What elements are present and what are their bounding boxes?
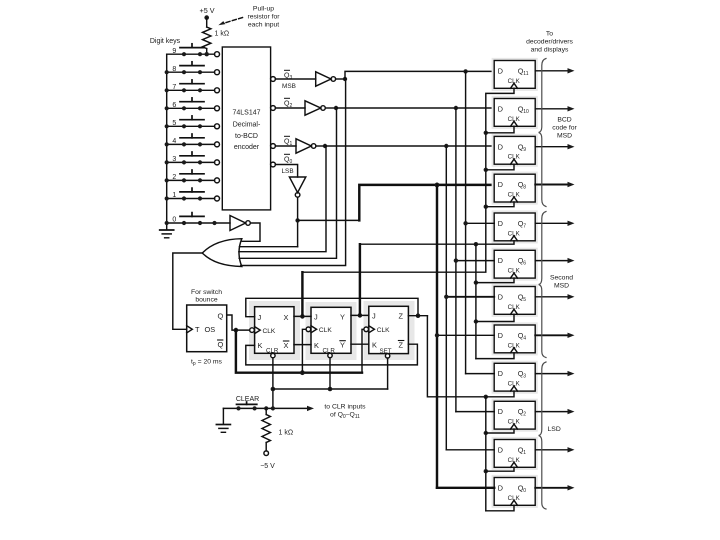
wire 2nd-MSD data tap bit3 to Q7 D — [466, 222, 495, 224]
wire Q2 to inverter G2 — [275, 107, 305, 109]
D flip-flop Q5 — [492, 284, 575, 317]
label Q3 MSB — [282, 73, 296, 91]
D flip-flop Q11 — [492, 58, 575, 91]
wire bit3 down to OR gate — [241, 79, 346, 266]
key 6 — [165, 98, 215, 111]
key 3 — [165, 152, 215, 164]
label For switch bounce — [191, 289, 222, 304]
D flip-flop Q3 — [492, 361, 575, 394]
wire MSD clock net (from X) — [302, 88, 514, 272]
svg-text:CLEAR: CLEAR — [236, 396, 259, 403]
wire X up to MSD clock rail (bold) — [301, 272, 303, 316]
ground (CLEAR) — [222, 408, 224, 424]
svg-text:X: X — [284, 341, 289, 350]
wire Z output — [408, 315, 427, 317]
label CLEAR — [236, 396, 259, 403]
svg-text:Digit keys: Digit keys — [150, 38, 181, 45]
key 9 — [167, 44, 215, 57]
D flip-flop Q10 — [492, 96, 575, 129]
svg-text:code for: code for — [552, 125, 577, 132]
D flip-flop Q8 — [492, 172, 575, 205]
svg-text:2: 2 — [172, 174, 176, 181]
svg-text:D: D — [498, 407, 503, 416]
svg-text:J: J — [314, 313, 318, 322]
node Z output junction — [416, 313, 421, 318]
wire Xbar to Y K — [294, 344, 311, 346]
svg-text:and displays: and displays — [531, 47, 569, 54]
wire LSD clock net (from Z) — [427, 316, 485, 397]
svg-text:Z: Z — [399, 312, 404, 321]
svg-text:D: D — [498, 66, 503, 75]
wire bit0 jog to Q8 D — [298, 219, 360, 221]
svg-text:MSD: MSD — [554, 283, 569, 290]
svg-text:bounce: bounce — [195, 297, 218, 304]
svg-text:1 kΩ: 1 kΩ — [215, 31, 230, 38]
wire clock tap to Y — [302, 329, 306, 372]
svg-text:5: 5 — [172, 120, 176, 127]
key 2 — [165, 170, 215, 182]
svg-text:LSB: LSB — [282, 168, 294, 175]
svg-text:resistor for: resistor for — [247, 13, 280, 20]
svg-text:D: D — [498, 483, 503, 492]
wire bit0 vertical — [436, 185, 438, 488]
svg-text:Z: Z — [399, 340, 404, 349]
svg-text:Q0: Q0 — [284, 157, 292, 166]
wire bit0 down to node A0 — [297, 197, 299, 247]
svg-text:X: X — [284, 313, 289, 322]
wire G3 output to bus (node A3) — [336, 78, 345, 80]
svg-text:To: To — [546, 31, 553, 38]
svg-text:1 kΩ: 1 kΩ — [279, 430, 294, 437]
wire 2nd-MSD data tap bit1 to Q5 D — [446, 296, 494, 298]
svg-text:D: D — [498, 180, 503, 189]
encoder output bubble Q1 — [271, 144, 276, 149]
resistor R2 1 kohm — [265, 408, 267, 414]
svg-text:OS: OS — [205, 325, 216, 334]
wire LSD data tap bit1 to Q1 D — [446, 449, 494, 451]
keypad rows 9..1 — [165, 44, 230, 225]
label LSD — [548, 426, 561, 433]
label Q1 — [284, 139, 292, 148]
brace MSD group — [539, 59, 546, 207]
wire Zbar feedback to X K — [246, 344, 418, 365]
flip-flop X (J-K) — [255, 307, 294, 354]
flip-flop Z (J-K) — [369, 306, 409, 353]
wire Y up to 2nd-MSD clock rail (bold) — [359, 244, 361, 315]
wire OS Q to clocks — [227, 315, 250, 330]
OR gate G5 — [202, 239, 242, 267]
svg-text:K: K — [372, 340, 377, 349]
svg-text:D: D — [498, 369, 503, 378]
label BCD code for MSD — [552, 117, 577, 140]
key 4 — [165, 134, 215, 146]
wire CLR rail — [272, 358, 274, 409]
wire clock tap to Z — [362, 329, 364, 372]
svg-text:Q: Q — [218, 311, 224, 320]
encoder output bubble Q2 — [271, 106, 276, 111]
one-shot U2 OS box — [187, 305, 227, 352]
D flip-flop Q9 — [492, 134, 575, 167]
wire Q1 to inverter G1 — [275, 145, 296, 147]
label tp = 20 ms — [191, 359, 223, 367]
label to CLR inputs of Q0-Q11 — [324, 404, 366, 420]
wire bit2 vertical — [455, 108, 457, 412]
wire top feedback rail (Z to J of X) — [246, 298, 418, 316]
svg-text:K: K — [258, 341, 263, 350]
svg-text:0: 0 — [172, 217, 176, 224]
brace LSD group — [539, 362, 546, 509]
svg-text:MSB: MSB — [282, 83, 296, 90]
brace 2nd MSD group — [539, 212, 546, 358]
wire clock rail (bold) — [236, 330, 362, 373]
svg-text:D: D — [498, 445, 503, 454]
label Digit keys — [150, 38, 181, 45]
svg-text:tp = 20 ms: tp = 20 ms — [191, 359, 223, 367]
label Q2 — [284, 101, 292, 110]
D flip-flop Q0 — [492, 475, 575, 508]
inverter G4 (downward) — [289, 177, 305, 193]
svg-text:Pull-up: Pull-up — [253, 6, 274, 13]
wire bit3 vertical — [465, 71, 467, 373]
svg-text:74LS147: 74LS147 — [232, 110, 260, 117]
wire 2nd-MSD data tap bit2 to Q6 D — [456, 260, 494, 262]
wire bit2 down to OR gate — [239, 108, 336, 258]
wire CLEAR line — [223, 407, 309, 409]
svg-text:D: D — [498, 104, 503, 113]
supply +5 V label — [200, 6, 215, 15]
wire resistor R1 to row 9 — [206, 49, 208, 55]
svg-text:D: D — [498, 142, 503, 151]
svg-text:8: 8 — [172, 66, 176, 73]
wire X output to Y J — [294, 315, 311, 317]
svg-text:Y: Y — [340, 341, 345, 350]
svg-text:1: 1 — [172, 192, 176, 199]
encoder output bubble Q3 — [271, 77, 276, 82]
resistor R1 1 kohm pull-up — [203, 27, 211, 49]
ground (keypad bus) — [160, 229, 174, 231]
node +5V terminal dot — [204, 15, 209, 20]
svg-text:LSD: LSD — [548, 426, 561, 433]
inverter G2 — [305, 101, 321, 115]
svg-text:J: J — [372, 312, 376, 321]
wire 2nd-MSD data tap bit0 to Q4 D — [437, 334, 494, 336]
wire bit1 down to OR gate — [239, 146, 326, 252]
svg-text:J: J — [258, 313, 262, 322]
svg-text:CLK: CLK — [319, 327, 332, 334]
wire left key bus — [166, 54, 168, 229]
svg-text:Q: Q — [218, 340, 224, 349]
inverter G3 — [316, 72, 331, 86]
wire bit0 to OR gate — [240, 246, 298, 248]
wire Q0 to inverter G4 — [275, 165, 297, 178]
svg-text:to CLR inputs: to CLR inputs — [324, 404, 366, 411]
encoder U1 74LS147 input bubbles — [215, 52, 220, 201]
wire bit1 vertical — [445, 146, 447, 450]
key 5 — [165, 116, 215, 129]
inverter G0 (key 0) — [230, 216, 246, 231]
svg-text:−5 V: −5 V — [260, 463, 275, 470]
wire G1 output to bus (node A1) — [316, 145, 325, 147]
D flip-flop Q7 — [492, 210, 575, 243]
flip-flop Y (J-K) — [311, 307, 351, 353]
svg-text:MSD: MSD — [557, 133, 572, 140]
svg-text:D: D — [498, 331, 503, 340]
svg-text:4: 4 — [172, 138, 176, 145]
label 1 kohm for R1 — [215, 31, 230, 38]
svg-text:3: 3 — [172, 156, 176, 163]
D flip-flop Q4 — [492, 322, 575, 355]
svg-text:Second: Second — [550, 275, 573, 282]
svg-text:T: T — [195, 325, 200, 334]
svg-text:encoder: encoder — [234, 144, 260, 151]
key 8 — [165, 62, 215, 74]
encoder output bubble Q0 — [271, 162, 276, 167]
wire Y output to Z J — [351, 314, 369, 316]
D flip-flop Q6 — [492, 248, 575, 281]
svg-text:D: D — [498, 292, 503, 301]
svg-text:+5 V: +5 V — [200, 6, 215, 15]
wire 2nd-MSD clock net (from Y) — [360, 241, 514, 244]
svg-text:BCD: BCD — [557, 117, 571, 124]
label Pull-up resistor for each input — [247, 6, 280, 29]
D flip-flop Q2 — [492, 399, 575, 432]
key 7 — [165, 80, 215, 93]
wire LSD data tap bit3 to Q3 D — [466, 373, 495, 375]
wire LSD data tap bit0 to Q0 D — [437, 487, 494, 489]
svg-text:CLK: CLK — [377, 327, 390, 334]
wire key0 inverter to OR gate — [242, 223, 260, 241]
svg-text:to-BCD: to-BCD — [235, 133, 258, 140]
wire Ybar to Z K — [351, 343, 369, 345]
svg-text:CLK: CLK — [263, 328, 276, 335]
svg-text:D: D — [498, 219, 503, 228]
pushbutton CLEAR — [237, 403, 257, 405]
svg-text:9: 9 — [172, 48, 176, 55]
wire OR output to one-shot T — [173, 253, 203, 329]
encoder U1 74LS147 box — [222, 47, 270, 210]
label Q0 LSB — [282, 157, 294, 175]
svg-text:decoder/drivers: decoder/drivers — [526, 39, 573, 46]
dashed arrow from label to resistor R1 — [223, 18, 243, 24]
svg-text:6: 6 — [172, 102, 176, 109]
svg-text:K: K — [314, 341, 319, 350]
shading behind flip-flops — [249, 301, 415, 360]
wire LSD data tap bit2 to Q2 D — [456, 411, 494, 413]
key 0 — [165, 213, 230, 225]
svg-text:D: D — [498, 256, 503, 265]
svg-text:Y: Y — [340, 313, 345, 322]
wire +5V to resistor R1 — [206, 18, 208, 27]
svg-text:each input: each input — [248, 21, 279, 28]
key 1 — [165, 188, 215, 200]
D flip-flop Q1 — [492, 437, 575, 470]
inverter G1 — [296, 139, 311, 153]
svg-text:of Q0–Q11: of Q0–Q11 — [330, 412, 360, 420]
svg-text:Decimal-: Decimal- — [233, 122, 261, 129]
wire G2 output to bus (node A2) — [325, 107, 336, 109]
svg-text:For switch: For switch — [191, 289, 222, 296]
svg-text:7: 7 — [172, 84, 176, 91]
label To decoder/drivers and displays — [526, 31, 573, 54]
label Second MSD — [550, 275, 573, 290]
wire Q3 to inverter G3 — [275, 78, 315, 80]
junction dot bit3 column — [463, 69, 467, 73]
